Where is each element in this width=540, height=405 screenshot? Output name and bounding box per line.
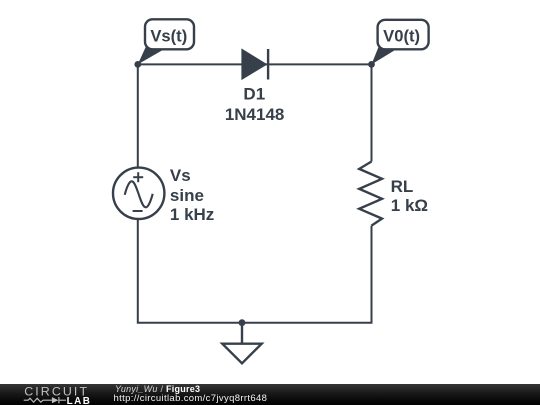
svg-text:1 kHz: 1 kHz [170, 205, 214, 224]
node: ground junction dot [239, 319, 246, 326]
footer attribution line [115, 385, 200, 394]
CircuitLab logo [20, 383, 100, 405]
node Vs(t) dot [134, 61, 141, 68]
wire left upper: node Vs(t) down to source [137, 64, 139, 168]
voltage source Vs (sine) [113, 168, 164, 219]
svg-text:V0(t): V0(t) [383, 27, 420, 46]
net label V0(t) bubble [372, 20, 429, 65]
net label Vs(t) bubble [138, 19, 194, 64]
footer url line [114, 394, 268, 404]
svg-text:Vs(t): Vs(t) [150, 26, 187, 45]
label RL / 1 kOhm [391, 177, 428, 215]
svg-text:D1: D1 [243, 84, 265, 103]
svg-text:sine: sine [170, 186, 204, 205]
node V0(t) dot [368, 61, 375, 68]
resistor RL zigzag [359, 162, 382, 226]
ground [222, 323, 261, 364]
svg-text:1 kΩ: 1 kΩ [391, 196, 428, 215]
wire left lower + bottom left: source to ground node [138, 219, 242, 323]
svg-text:RL: RL [391, 177, 414, 196]
label D1 / 1N4148 [225, 84, 285, 123]
svg-text:1N4148: 1N4148 [225, 105, 285, 124]
diode D1 [242, 49, 268, 80]
footer bar [0, 384, 540, 405]
wire top: node Vs(t) to node V0(t) [138, 63, 372, 65]
svg-text:Vs: Vs [170, 166, 191, 185]
wire bottom right + right lower: ground node to resistor [242, 226, 372, 323]
label Vs / sine / 1 kHz [170, 166, 214, 224]
svg-text:LAB: LAB [67, 396, 92, 405]
wire right upper: node V0(t) down to resistor [371, 64, 373, 161]
